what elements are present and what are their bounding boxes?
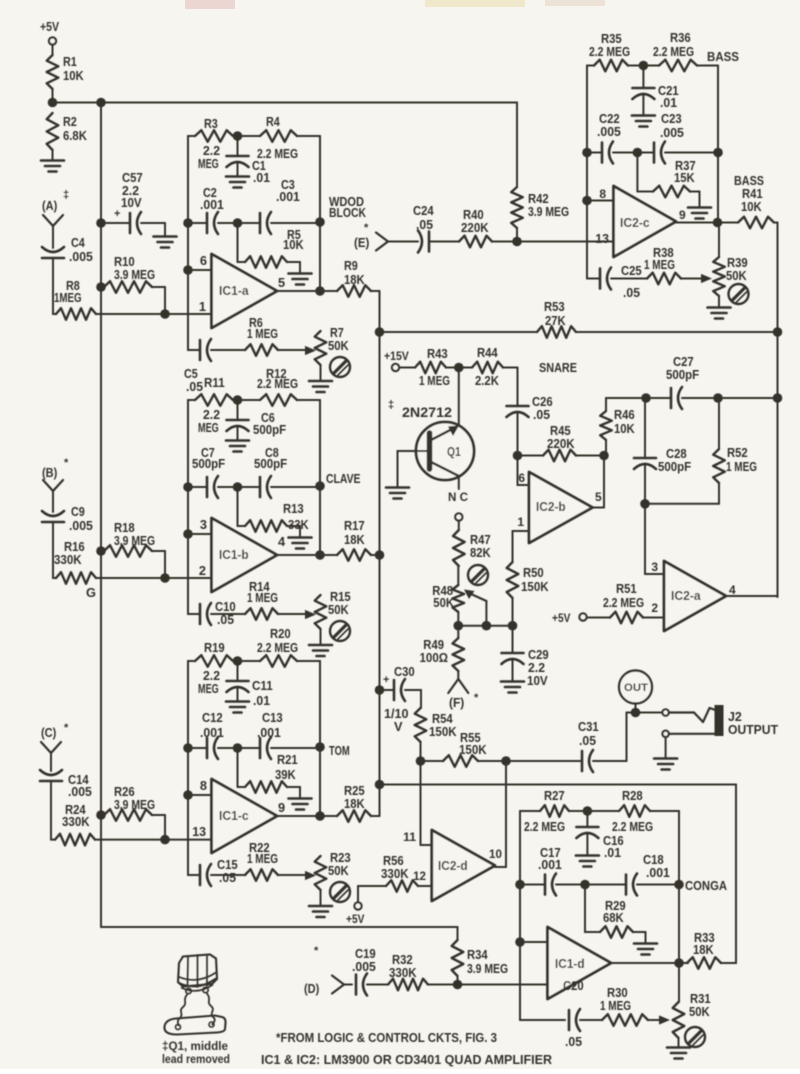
wire mixer bus to CONGA <box>375 780 736 963</box>
svg-text:.001: .001 <box>257 725 281 740</box>
wire to IC1-c pin 13 <box>165 839 212 841</box>
svg-text:2.2K: 2.2K <box>475 373 500 388</box>
wire IC2-d output up <box>505 761 507 867</box>
svg-text:OUT: OUT <box>624 682 648 694</box>
node OUT junction <box>627 708 663 718</box>
svg-text:R17: R17 <box>344 518 365 533</box>
svg-text:C20: C20 <box>563 978 584 993</box>
svg-text:*FROM LOGIC & CONTROL CKTS, FI: *FROM LOGIC & CONTROL CKTS, FIG. 3 <box>276 1030 497 1045</box>
svg-text:G: G <box>86 585 96 600</box>
svg-text:R43: R43 <box>427 346 448 361</box>
svg-text:IC1-d: IC1-d <box>555 957 585 971</box>
pin 1 label <box>199 299 206 314</box>
svg-text:50K: 50K <box>689 1004 710 1019</box>
node TOM <box>315 742 325 816</box>
svg-text:C4: C4 <box>71 235 86 250</box>
node C17-C18 midpoint <box>556 880 626 890</box>
pin 12 label IC2-d <box>413 869 426 883</box>
svg-text:R9: R9 <box>344 258 358 273</box>
svg-text:2.2 MEG: 2.2 MEG <box>612 819 653 834</box>
svg-text:500pF: 500pF <box>658 459 691 474</box>
svg-text:CONGA: CONGA <box>685 878 727 893</box>
resistor R45 <box>518 423 605 461</box>
label BASS output <box>734 173 764 188</box>
svg-text:8: 8 <box>599 187 606 201</box>
resistor R1 <box>47 54 85 103</box>
node C27 right <box>713 393 723 403</box>
node R3-R4 junction <box>233 131 243 141</box>
svg-text:330K: 330K <box>389 965 417 980</box>
label WDOD BLOCK <box>329 194 367 220</box>
capacitor C19 <box>352 946 376 996</box>
capacitor C10 <box>188 599 236 627</box>
footnote logic <box>276 1030 497 1045</box>
op-amp IC2-a <box>664 561 726 631</box>
svg-text:18K: 18K <box>344 796 365 811</box>
svg-text:(D): (D) <box>304 981 319 996</box>
label CLAVE <box>326 471 361 486</box>
svg-text:+: + <box>114 208 120 220</box>
svg-text:1 MEG: 1 MEG <box>600 998 631 1013</box>
svg-text:150K: 150K <box>521 579 549 594</box>
resistor R2 <box>47 113 88 160</box>
wiper arrow R23 <box>305 871 316 880</box>
capacitor C18 <box>626 852 679 896</box>
caption Q1 package <box>162 1039 230 1066</box>
svg-text:C23: C23 <box>661 111 682 126</box>
svg-text:1 MEG: 1 MEG <box>726 459 757 474</box>
capacitor C30 <box>375 664 421 734</box>
ground R37 <box>688 208 711 219</box>
ground C29 <box>501 682 524 693</box>
capacitor C9 <box>42 504 93 578</box>
node R50-C29 junction <box>508 621 518 631</box>
ground output jack <box>654 759 677 770</box>
resistor R54 <box>415 708 458 761</box>
capacitor C24 <box>413 203 434 253</box>
resistor R5 <box>238 223 305 273</box>
ground C16 <box>576 856 599 867</box>
svg-text:R51: R51 <box>616 581 637 596</box>
svg-text:50K: 50K <box>328 338 349 353</box>
svg-text:MEG: MEG <box>198 156 219 171</box>
svg-text:150K: 150K <box>429 724 457 739</box>
resistor R17 <box>330 518 371 561</box>
node WDOD BLOCK <box>315 217 325 291</box>
node C23 right <box>713 148 723 158</box>
pin 13 label IC2-c <box>595 231 609 246</box>
resistor R25 <box>330 783 371 822</box>
svg-text:13: 13 <box>192 824 206 839</box>
potentiometer R7 <box>315 325 350 380</box>
svg-text:330K: 330K <box>62 814 90 829</box>
resistor R46 <box>600 398 646 456</box>
svg-text:1: 1 <box>517 515 524 529</box>
wiper arrow R7 <box>305 346 316 355</box>
pin 4 label <box>278 534 286 549</box>
node R43-R44 junction <box>454 363 464 373</box>
ground C1 <box>226 177 249 188</box>
svg-text:.005: .005 <box>69 249 93 264</box>
pin 6 wire IC2-b <box>518 456 530 486</box>
svg-text:.05: .05 <box>219 870 236 885</box>
svg-text:R19: R19 <box>204 640 225 655</box>
svg-text:9: 9 <box>679 208 686 222</box>
resistor R36 <box>653 30 718 153</box>
op-amp IC2-d <box>432 830 495 901</box>
svg-text:5: 5 <box>278 275 285 290</box>
input node (A) <box>42 189 69 248</box>
svg-text:R44: R44 <box>477 345 498 360</box>
svg-text:1 MEG: 1 MEG <box>247 851 278 866</box>
svg-text:R2: R2 <box>63 114 77 129</box>
resistor R29 <box>585 885 646 944</box>
trimmer symbol R7 <box>330 357 350 377</box>
svg-text:BASS: BASS <box>707 49 739 64</box>
svg-text:2.2 MEG: 2.2 MEG <box>653 44 694 59</box>
svg-text:Q1: Q1 <box>447 444 461 459</box>
svg-text:.005: .005 <box>68 784 92 799</box>
ground R39 <box>708 308 731 319</box>
svg-text:.05: .05 <box>565 1034 582 1049</box>
svg-text:(A): (A) <box>42 198 57 213</box>
trimmer symbol R47 <box>468 565 488 585</box>
+5V supply terminal <box>40 20 60 55</box>
svg-text:10V: 10V <box>121 195 142 210</box>
capacitor C31 <box>506 713 627 773</box>
svg-text:‡: ‡ <box>63 189 69 201</box>
ground R15 <box>309 645 332 656</box>
ground R13 <box>289 538 312 549</box>
OUT terminal <box>619 671 652 713</box>
node bias bus top <box>96 98 106 108</box>
capacitor C17 <box>515 845 562 896</box>
svg-text:10: 10 <box>489 847 502 861</box>
svg-text:500pF: 500pF <box>254 456 287 471</box>
capacitor C27 <box>641 354 718 409</box>
svg-text:.001: .001 <box>200 197 224 212</box>
svg-text:.01: .01 <box>253 170 270 185</box>
resistor R34 <box>452 927 508 985</box>
node C26 bottom <box>513 451 523 461</box>
op-amp IC1-c <box>212 779 278 853</box>
node R53 tee <box>375 327 385 337</box>
capacitor C26 <box>507 394 553 456</box>
switch blade to jack <box>669 708 716 722</box>
svg-text:C13: C13 <box>262 710 283 725</box>
resistor R14 <box>211 579 306 620</box>
resistor R20 <box>233 626 320 747</box>
resistor R33 <box>687 930 736 969</box>
wire R17 to mixer bus <box>371 554 380 556</box>
pin 4 label IC2-a <box>729 583 736 597</box>
svg-text:.005: .005 <box>597 124 621 139</box>
input node (E) <box>354 222 418 251</box>
svg-text:2: 2 <box>199 563 206 578</box>
svg-text:CLAVE: CLAVE <box>326 471 361 486</box>
pin 1 wire IC2-b <box>513 515 530 531</box>
svg-text:5: 5 <box>595 490 602 504</box>
ground R7 <box>309 381 332 392</box>
resistor R4 <box>233 114 320 222</box>
svg-text:*: * <box>314 945 319 957</box>
ground R21 <box>289 799 312 810</box>
resistor R37 <box>637 153 699 208</box>
svg-text:OUTPUT: OUTPUT <box>728 722 778 737</box>
resistor R30 <box>580 985 660 1026</box>
capacitor C1 <box>227 136 271 185</box>
capacitor C22 <box>582 111 621 164</box>
node R55-C31 junction <box>501 756 511 766</box>
svg-text:IC2-d: IC2-d <box>438 859 468 873</box>
node IC1-d output <box>674 958 684 968</box>
svg-text:4: 4 <box>729 583 736 597</box>
svg-text:R1: R1 <box>63 54 77 69</box>
resistor R13 <box>238 487 310 537</box>
pin 2 label <box>199 563 206 578</box>
resistor R19 <box>188 640 233 696</box>
svg-text:3.9 MEG: 3.9 MEG <box>114 797 155 812</box>
svg-text:2N2712: 2N2712 <box>402 404 452 420</box>
svg-text:‡: ‡ <box>388 399 394 411</box>
wire to IC2-c pin 13 <box>517 241 614 243</box>
ground R31 <box>667 1048 690 1059</box>
node R35-R36 junction <box>628 61 659 71</box>
svg-text:10K: 10K <box>283 237 304 252</box>
resistor R12 <box>233 366 320 486</box>
capacitor C3 <box>260 177 320 234</box>
svg-text:.05: .05 <box>623 285 640 300</box>
node C22-C23 midpoint <box>613 148 654 158</box>
resistor R53 <box>380 299 778 338</box>
svg-text:2.2 MEG: 2.2 MEG <box>524 819 565 834</box>
svg-text:*: * <box>64 457 69 469</box>
label node G <box>86 585 96 600</box>
pin 13 label <box>192 824 206 839</box>
ground C11 <box>226 702 249 713</box>
wire output IC1-c <box>277 815 330 817</box>
capacitor C57 <box>96 170 165 236</box>
svg-text:.01: .01 <box>660 95 677 110</box>
svg-text:R4: R4 <box>266 114 281 129</box>
node output IC1-b <box>315 550 325 560</box>
wire R9 to mixer bus <box>371 291 380 332</box>
svg-text:.05: .05 <box>416 217 433 232</box>
svg-text:C9: C9 <box>71 504 85 519</box>
resistor R8 <box>54 278 165 320</box>
svg-text:10K: 10K <box>614 421 635 436</box>
svg-text:1 MEG: 1 MEG <box>247 326 278 341</box>
svg-text:82K: 82K <box>470 545 491 560</box>
capacitor C5 <box>184 339 211 394</box>
svg-text:IC2-b: IC2-b <box>536 500 566 514</box>
svg-text:18K: 18K <box>344 272 365 287</box>
wire feedback bus C <box>187 661 189 875</box>
op-amp IC1-d <box>548 927 612 999</box>
svg-text:R50: R50 <box>523 565 544 580</box>
svg-text:500pF: 500pF <box>192 456 225 471</box>
svg-text:C11: C11 <box>252 678 273 693</box>
op-amp IC1-b <box>212 518 278 592</box>
svg-text:6: 6 <box>200 253 207 268</box>
resistor R28 <box>612 788 679 885</box>
svg-text:10V: 10V <box>527 673 548 688</box>
node R1-R2 junction <box>48 98 58 108</box>
ground R2 <box>41 161 64 172</box>
ground Q1 base <box>386 488 409 499</box>
wire C27 to right bus <box>718 397 778 399</box>
resistor R26 <box>96 784 165 840</box>
svg-text:11: 11 <box>403 830 416 844</box>
svg-text:(C): (C) <box>41 725 56 740</box>
svg-text:N C: N C <box>448 490 468 504</box>
svg-text:330K: 330K <box>381 866 409 881</box>
svg-text:IC1 & IC2: LM3900 OR CD3401 QU: IC1 & IC2: LM3900 OR CD3401 QUAD AMPLIFI… <box>261 1052 552 1067</box>
svg-text:1 MEG: 1 MEG <box>419 373 450 388</box>
svg-text:8: 8 <box>200 778 207 793</box>
svg-text:3.9 MEG: 3.9 MEG <box>114 267 155 282</box>
svg-text:27K: 27K <box>545 313 566 328</box>
wire feedback bus A <box>187 136 189 350</box>
resistor R27 <box>520 788 569 834</box>
svg-text:R53: R53 <box>544 299 565 314</box>
resistor R43 <box>415 346 459 388</box>
node R27-R28 junction <box>569 806 619 816</box>
resistor R47 <box>453 530 491 566</box>
svg-text:6: 6 <box>518 471 525 485</box>
svg-text:*: * <box>364 222 369 234</box>
footnote IC types <box>261 1052 552 1067</box>
capacitor C4 <box>42 235 93 314</box>
svg-text:*: * <box>474 692 479 704</box>
svg-text:9: 9 <box>278 800 285 815</box>
svg-text:.005: .005 <box>352 959 376 974</box>
svg-text:R34: R34 <box>467 947 488 962</box>
svg-text:TOM: TOM <box>329 743 350 758</box>
svg-text:3.9 MEG: 3.9 MEG <box>467 961 508 976</box>
svg-text:R20: R20 <box>270 626 291 641</box>
node CLAVE <box>315 481 325 555</box>
wire BASS node <box>717 153 719 223</box>
svg-text:*: * <box>64 722 69 734</box>
svg-text:MEG: MEG <box>198 681 219 696</box>
svg-text:18K: 18K <box>344 532 365 547</box>
resistor R16 <box>54 539 165 584</box>
ground C57 <box>154 237 177 248</box>
svg-text:3: 3 <box>651 560 658 574</box>
svg-text:.05: .05 <box>579 733 596 748</box>
svg-text:1 MEG: 1 MEG <box>247 590 278 605</box>
+5V terminal R51 <box>552 611 610 625</box>
svg-text:+15V: +15V <box>384 349 409 363</box>
capacitor C14 <box>40 770 92 840</box>
pin 8 wire <box>183 778 211 800</box>
pin 3 wire <box>183 517 211 539</box>
input node (F) <box>448 679 479 710</box>
svg-text:.001: .001 <box>538 857 562 872</box>
resistor R11 <box>188 375 233 435</box>
wire IC1-d top input <box>515 937 547 947</box>
node R32-R34 junction <box>453 980 463 990</box>
pin 5 label IC2-b <box>595 490 602 504</box>
svg-text:.05: .05 <box>186 379 203 394</box>
svg-text:R11: R11 <box>204 375 225 390</box>
resistor R22 <box>211 840 306 881</box>
svg-text:12: 12 <box>413 869 426 883</box>
input node (D) <box>304 945 352 996</box>
svg-text:330K: 330K <box>54 552 82 567</box>
transistor Q1 <box>388 368 474 490</box>
svg-text:+5V: +5V <box>346 912 364 926</box>
svg-text:2.2 MEG: 2.2 MEG <box>257 640 298 655</box>
svg-text:R46: R46 <box>614 407 635 422</box>
capacitor C25 <box>587 263 642 300</box>
resistor R49 <box>420 626 465 679</box>
resistor R44 <box>459 345 518 399</box>
svg-text:500pF: 500pF <box>253 422 286 437</box>
switch contact lower <box>662 731 714 758</box>
ground R29 <box>634 944 657 955</box>
svg-text:100Ω: 100Ω <box>420 650 449 665</box>
svg-text:C25: C25 <box>621 263 642 278</box>
node R48-R49 junction <box>454 621 513 631</box>
capacitor C16 <box>576 811 623 860</box>
svg-text:150K: 150K <box>459 742 487 757</box>
resistor R21 <box>238 748 301 798</box>
switch contact upper <box>662 709 668 715</box>
svg-text:R27: R27 <box>544 788 565 803</box>
resistor R3 <box>188 116 233 171</box>
node R16-R18 junction <box>160 573 170 583</box>
pin 8 wire IC2-c <box>582 187 613 205</box>
svg-text:3.9 MEG: 3.9 MEG <box>528 204 569 219</box>
svg-text:3.9 MEG: 3.9 MEG <box>114 533 155 548</box>
resistor R38 <box>611 245 702 284</box>
trimmer symbol R15 <box>330 621 350 641</box>
svg-text:lead removed: lead removed <box>162 1052 230 1066</box>
svg-text:18K: 18K <box>693 942 714 957</box>
op-amp IC2-c <box>614 186 677 257</box>
svg-text:13: 13 <box>595 231 609 246</box>
svg-text:220K: 220K <box>547 436 575 451</box>
wire feedback bus BASS <box>586 66 588 279</box>
svg-text:.05: .05 <box>533 407 550 422</box>
pin 2 label IC2-a <box>651 601 658 615</box>
resistor R6 <box>211 315 306 356</box>
terminal R47 top <box>455 513 462 530</box>
wiper arrow R39 <box>701 274 712 283</box>
svg-text:‡Q1, middle: ‡Q1, middle <box>162 1039 228 1053</box>
node R54-R55 junction <box>416 756 426 766</box>
trimmer symbol R31 <box>685 1027 705 1047</box>
node right bus C27 row <box>773 393 783 403</box>
svg-text:220K: 220K <box>461 220 489 235</box>
potentiometer R39 <box>713 223 748 308</box>
wire to IC1-b pin 2 <box>165 577 212 579</box>
svg-text:10K: 10K <box>63 68 84 83</box>
label TOM <box>329 743 350 758</box>
pin 3 wire IC2-a <box>645 504 664 574</box>
svg-text:R13: R13 <box>283 501 304 516</box>
svg-text:50K: 50K <box>328 863 349 878</box>
wire output IC2-d <box>495 866 506 868</box>
svg-text:(B): (B) <box>42 465 57 480</box>
svg-text:2.2 MEG: 2.2 MEG <box>603 595 644 610</box>
svg-text:68K: 68K <box>603 910 624 925</box>
svg-text:IC1-b: IC1-b <box>219 548 249 562</box>
svg-text:R21: R21 <box>277 752 298 767</box>
label N C <box>448 490 468 504</box>
